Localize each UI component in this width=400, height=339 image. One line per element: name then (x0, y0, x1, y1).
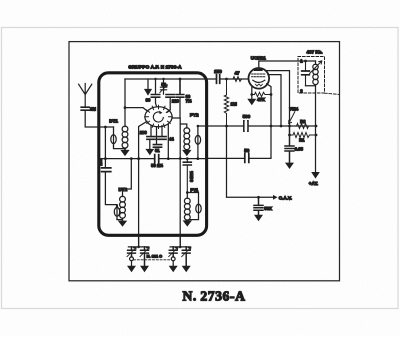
inductor (tank) (315, 61, 317, 64)
trimmer DT1 (antenna) (113, 127, 115, 146)
grid 1 (dashed) (252, 73, 266, 75)
arrow C.A.V. (273, 195, 278, 200)
wire tube pin to screen line (265, 71, 289, 126)
ground 50K (254, 215, 263, 221)
gang link dashed + label N.821 C (134, 259, 171, 261)
wire 150 to tube (220, 78, 248, 80)
section b (182, 247, 190, 266)
resistor 1M (vertical) (224, 79, 228, 126)
wire C.A.V. branch (227, 126, 274, 197)
wire 100-cap branch (104, 127, 106, 168)
capacitor 44 (right) (158, 137, 166, 140)
capacitor 30 7% (176, 79, 184, 97)
variable capacitor gang 2 (169, 236, 191, 273)
cathode (253, 80, 265, 82)
wire trimmer bottom to DT2 coil bottom (117, 218, 123, 220)
ground 0.05 (285, 163, 294, 169)
wire B+ line (315, 86, 317, 172)
rotary switch S1 (145, 105, 173, 128)
feed wire (128, 236, 148, 247)
wire to PY2 (180, 124, 187, 128)
capacitor 51 (lower) (153, 145, 161, 148)
arrow +AT (311, 172, 320, 179)
node padder top (186, 157, 189, 160)
inductor DT1 (124, 108, 126, 127)
wire cathode pin (251, 87, 253, 94)
inductor PY1 (186, 193, 188, 199)
capacitor 286 (left) (147, 137, 155, 140)
core adjust arrow (310, 61, 322, 74)
ground PY1 (183, 220, 192, 226)
section a (169, 247, 177, 257)
dashed extension to frame (325, 93, 340, 94)
wire tube pin to AVC (268, 75, 281, 126)
node PY1 top (186, 191, 189, 194)
wire AVC line (560 line) (198, 125, 316, 127)
resistor 47K (252, 92, 271, 96)
capacitor (tank) (302, 61, 310, 86)
wire to switch upper-left (125, 108, 147, 111)
ground DT2 (118, 221, 127, 227)
wire RF grid line (top inside box to tube) (125, 78, 216, 80)
resistor R1 (290, 133, 317, 138)
capacitor 30 (151, 95, 159, 98)
resistor R3 (297, 124, 309, 129)
ground stub on RF line (147, 79, 149, 89)
ground arrow (144, 89, 152, 96)
capacitor 50K (254, 197, 263, 214)
capacitor 50 1% (in bus) (155, 155, 159, 163)
node antenna/100 junction (104, 126, 107, 129)
section b (141, 247, 149, 266)
capacitor 340 padder (183, 159, 191, 193)
grid 2 (dashed) (252, 76, 266, 78)
capacitor 0.05 (285, 126, 294, 162)
switch bottom pins (151, 125, 168, 159)
potentiometer arrow 75% (289, 112, 295, 124)
feed wire (170, 236, 190, 247)
capacitor 1M (antenna series) (81, 107, 89, 110)
wire chassis bus (100, 126, 272, 159)
wire switch lower-left to varcap 1 (139, 121, 147, 247)
wire osc section feed (switch to varcap 2) (179, 118, 181, 247)
wire trimmer DT1 bottom to coil bottom (114, 146, 126, 149)
antenna (79, 84, 92, 108)
wire grid line left corner (124, 79, 126, 108)
node 30-7% top (179, 78, 182, 81)
ground PY2 (182, 150, 191, 156)
border frame of schematic (69, 42, 340, 281)
ground DT1 (120, 150, 129, 156)
anode plate (254, 69, 263, 71)
wire anode to IF transformer (259, 61, 316, 68)
trimmer 50 (160, 79, 166, 94)
node 50K (257, 196, 260, 199)
wire 100 cap to DT2 trimmer (105, 172, 117, 205)
resistor 47 (233, 77, 242, 82)
inductor PY2 (184, 128, 190, 134)
tube U1 UCH81 (248, 56, 269, 89)
trimmer PY2 (197, 126, 199, 159)
inductor DT2 (122, 189, 124, 197)
GRUPPO AF shield box (99, 73, 207, 236)
node DT1 top (124, 106, 127, 109)
ground cathode (247, 99, 256, 105)
capacitor 150 (217, 75, 220, 84)
wire DT2 top to bus (123, 159, 132, 189)
trimmer DT2 (variable core) (116, 205, 118, 220)
section a (128, 247, 136, 257)
capacitor 226 (166, 95, 174, 98)
capacitor 100 (102, 168, 111, 172)
wire stub cap 30 (155, 79, 157, 94)
wire antenna to box (85, 111, 113, 127)
wire caps to switch (156, 97, 171, 112)
node 1M top (225, 78, 228, 81)
capacitor 50 (osc grid) (245, 153, 249, 162)
wire tube pin osc grid (267, 84, 271, 126)
IF transformer T1 467 Kc (298, 50, 339, 95)
dashed shield box (298, 57, 325, 94)
variable capacitor gang 1 (127, 236, 149, 273)
wire to switch right (172, 97, 180, 118)
trimmer PY1 (187, 193, 198, 204)
ground arrow (145, 149, 154, 155)
wire cap to ground (149, 140, 151, 149)
capacitor 560 (244, 121, 248, 131)
